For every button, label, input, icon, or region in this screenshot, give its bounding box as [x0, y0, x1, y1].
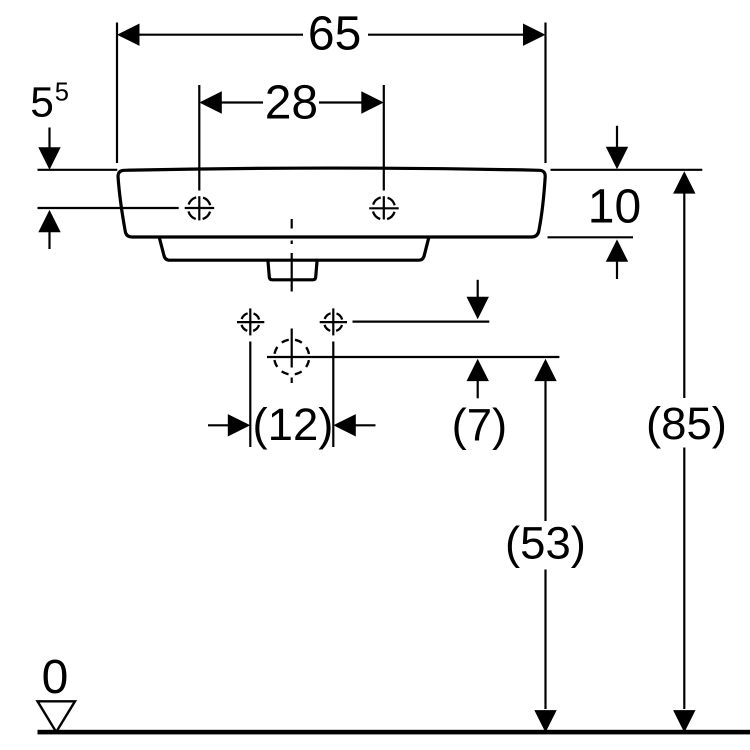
svg-text:5: 5: [55, 78, 69, 106]
svg-text:65: 65: [308, 8, 361, 61]
svg-text:0: 0: [42, 651, 69, 704]
svg-text:5: 5: [30, 80, 54, 127]
svg-text:10: 10: [588, 181, 641, 234]
svg-text:(7): (7): [452, 400, 508, 451]
svg-text:(12): (12): [253, 399, 334, 450]
svg-text:(53): (53): [505, 518, 586, 569]
svg-text:(85): (85): [646, 398, 727, 449]
svg-text:28: 28: [265, 77, 318, 130]
